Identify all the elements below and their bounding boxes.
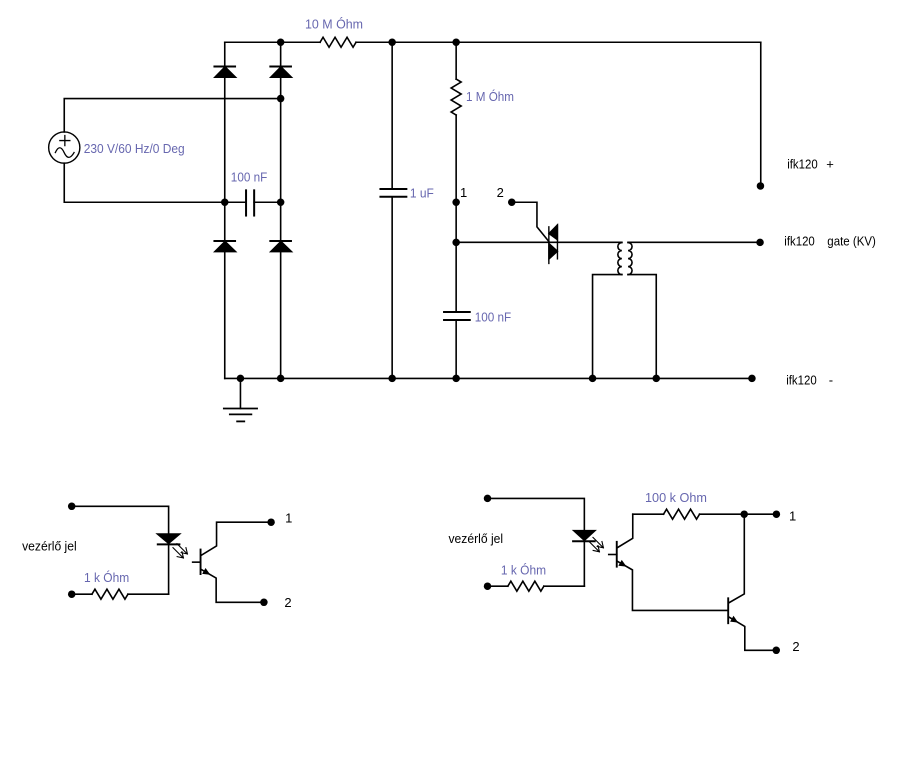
junction bottom rail / ground tap [237, 375, 245, 383]
wire LED cathode down [583, 541, 585, 586]
junction bottom rail / transformer primary leg [589, 375, 597, 383]
junction 100k / Q2 collector [740, 510, 748, 518]
svg-text:100 nF: 100 nF [231, 169, 268, 184]
svg-text:1 k Óhm: 1 k Óhm [501, 562, 546, 577]
svg-text:230 V/60 Hz/0 Deg: 230 V/60 Hz/0 Deg [84, 141, 185, 156]
junction bottom rail / 100nF column [452, 375, 460, 383]
AC source V1 [49, 132, 80, 163]
wire LED anode top [72, 506, 169, 534]
terminal dot 1 [773, 510, 781, 518]
svg-text:2: 2 [284, 595, 291, 610]
wire gate line [456, 241, 622, 243]
svg-text:-: - [829, 372, 833, 387]
wire drop to ifk120 + [760, 42, 762, 186]
svg-text:gate (KV): gate (KV) [827, 233, 876, 248]
transformer T1 [618, 243, 632, 275]
svg-text:ifk120: ifk120 [786, 372, 817, 387]
phototransistor U2 [609, 514, 728, 610]
junction bottom rail / 1uF column [388, 375, 396, 383]
junction bottom rail / transformer secondary leg [653, 375, 661, 383]
junction top rail / 1uF column [388, 39, 396, 47]
LED D6 [573, 531, 595, 542]
wire 100k line [633, 513, 664, 515]
wire gate of triac [512, 202, 549, 241]
junction source bottom wire / left bridge column [221, 199, 229, 207]
wire left bridge column [224, 42, 226, 378]
transistor Q2 [728, 514, 776, 650]
svg-text:1: 1 [789, 508, 796, 523]
capacitor C2 1 uF [380, 189, 406, 197]
wire source top to bridge [64, 99, 280, 132]
wire 1M column mid [455, 115, 457, 312]
terminal dot 1 [267, 518, 275, 526]
wire bottom rail [225, 377, 752, 379]
junction top rail / right bridge column [277, 39, 285, 47]
wire transformer primary bottom leg [593, 275, 622, 379]
svg-text:1 k Óhm: 1 k Óhm [84, 570, 129, 585]
terminal dot 2 [260, 599, 268, 607]
terminal dot top left [484, 495, 492, 503]
svg-text:1: 1 [285, 511, 292, 526]
svg-text:ifk120: ifk120 [787, 156, 818, 171]
svg-text:vezérlő jel: vezérlő jel [22, 538, 77, 553]
terminal dot 2 [773, 647, 781, 655]
wire 1uF column [391, 42, 393, 378]
wire transformer secondary bottom leg [628, 275, 656, 379]
LED D5 [158, 534, 180, 544]
junction bottom rail / right bridge column [277, 375, 285, 383]
svg-text:2: 2 [792, 639, 799, 654]
svg-text:1 uF: 1 uF [410, 185, 434, 200]
wire bottom to resistor [488, 585, 508, 587]
wire 100k to terminal 1 [700, 513, 777, 515]
resistor R5 100k zigzag [664, 509, 700, 519]
svg-text:1: 1 [460, 185, 467, 200]
wire top rail left [225, 41, 320, 43]
resistor R3 1k zigzag [92, 589, 128, 599]
diode D4 [270, 241, 291, 252]
svg-text:vezérlő jel: vezérlő jel [449, 531, 504, 546]
terminal ifk120 gate (KV) [756, 239, 764, 247]
wire LED anode top [488, 498, 585, 530]
junction 100nF wire / right bridge column [277, 199, 285, 207]
junction at 1M column gate line [452, 239, 460, 247]
triac Q1 [549, 225, 558, 263]
resistor R2 1M zigzag [451, 79, 461, 115]
wire right bridge column [280, 42, 282, 378]
terminal dot bottom left [68, 590, 76, 598]
node 2 [508, 199, 516, 207]
wire 1M column top [455, 42, 457, 79]
svg-text:2: 2 [497, 185, 504, 200]
wire transformer secondary top [628, 241, 760, 243]
svg-text:ifk120: ifk120 [784, 233, 815, 248]
svg-text:10 M Óhm: 10 M Óhm [305, 17, 363, 32]
wire LED cathode down [168, 544, 170, 594]
terminal dot bottom left [484, 582, 492, 590]
capacitor C1 100 nF (bridge) [225, 190, 281, 215]
terminal ifk120 - [748, 375, 756, 383]
light arrows [589, 537, 604, 551]
light arrows [173, 544, 188, 558]
wire below C3 [455, 320, 457, 378]
diode D1 [214, 66, 235, 77]
node 1 [452, 199, 460, 207]
wire top rail right [356, 41, 761, 43]
capacitor C3 100 nF [444, 312, 470, 320]
svg-text:+: + [826, 156, 834, 171]
wire resistor to LED column [128, 593, 169, 595]
resistor R1 10M zigzag [320, 37, 356, 47]
svg-text:1 M Óhm: 1 M Óhm [466, 89, 514, 104]
wire resistor to LED column [544, 585, 585, 587]
terminal dot top left [68, 503, 76, 511]
resistor R4 1k zigzag [508, 581, 544, 591]
svg-text:100 nF: 100 nF [475, 309, 512, 324]
ground [224, 378, 257, 421]
wire source bottom to bridge mid [64, 163, 225, 202]
junction source top wire / right bridge column [277, 95, 285, 103]
svg-text:100 k Ohm: 100 k Ohm [645, 490, 707, 505]
diode D3 [214, 241, 235, 252]
terminal ifk120 + [757, 182, 765, 190]
wire bottom to resistor [72, 593, 92, 595]
junction top rail / 1M column [452, 39, 460, 47]
diode D2 [270, 66, 291, 77]
phototransistor U1 [193, 522, 271, 602]
